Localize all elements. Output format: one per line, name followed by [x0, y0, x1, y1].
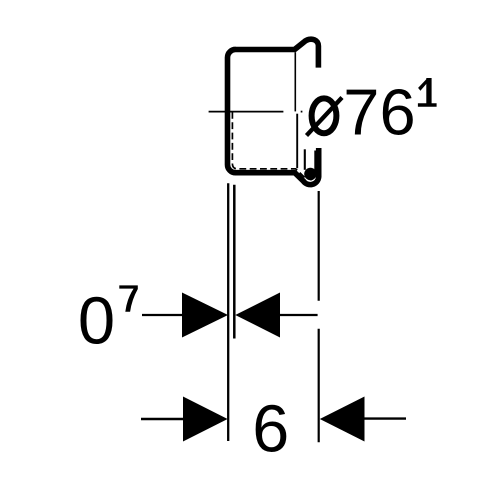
centerline (horizontal axis) — [209, 111, 284, 113]
bottom dimension leader right — [364, 417, 406, 419]
diameter symbol slash — [307, 98, 343, 136]
svg-text:0: 0 — [78, 284, 115, 359]
mid dimension arrow left-pointing — [235, 293, 280, 338]
mid dimension leader right — [279, 314, 318, 316]
thin vertical line v1 (socket seam upper) — [294, 52, 296, 111]
bottom dimension arrow left-pointing — [320, 397, 365, 442]
extension line C lower (x=318.7) — [318, 329, 320, 443]
bead inner right edge (solid thin) — [310, 151, 315, 180]
O-ring dot — [304, 168, 316, 180]
bottom dimension arrow right-pointing — [183, 397, 228, 442]
extension line A (x=228.2) — [227, 183, 229, 441]
thin vertical line v2 (socket seam lower) — [296, 114, 298, 169]
mid dimension leader left — [142, 314, 184, 316]
extension line B (x=234.3) — [233, 185, 236, 339]
svg-text:76: 76 — [343, 76, 415, 149]
svg-text:6: 6 — [252, 392, 289, 466]
extension line C upper (x=318.7) — [318, 191, 320, 301]
bottom dimension leader left — [141, 418, 184, 420]
centerline dot — [301, 111, 303, 113]
mid dimension arrow right-pointing — [182, 293, 228, 338]
inner hidden contour (dashed line) — [232, 112, 307, 179]
thin vertical line v3 (bead inner edge) — [304, 149, 306, 170]
diameter symbol circle — [312, 98, 337, 133]
label superscript 7 (drawn) — [119, 285, 138, 311]
label superscript 1 (footed style, drawn) — [418, 78, 437, 107]
cap outer contour (thick wall) — [227, 39, 318, 184]
